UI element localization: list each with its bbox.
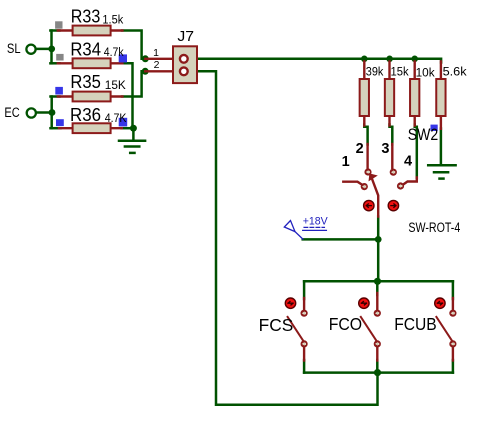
wire J7 pin2 long route to switches bottom (198, 71, 378, 404)
resistor 39k (360, 62, 369, 126)
node top rail junction (374, 278, 381, 285)
resistor 10k (410, 62, 419, 126)
resistor R34 (58, 58, 123, 68)
marker blue square R36 left (56, 119, 64, 126)
terminal EC (27, 108, 36, 117)
wire FCUB bottom riser (452, 360, 455, 373)
resistor 5.6k (436, 62, 445, 129)
marker gray square R33 (55, 21, 62, 28)
wire FCS top drop (303, 281, 306, 299)
wire J7 pin1 main horizontal net (198, 59, 441, 63)
power flag +18V (284, 221, 326, 240)
rotary switch SW2 contact 1 (361, 183, 368, 190)
rotary switch SW2 increment button (388, 200, 398, 210)
rotary switch SW2 pin 3 lead (391, 144, 393, 168)
svg-text:1: 1 (153, 47, 159, 59)
node +18V junction (375, 236, 382, 243)
svg-text:4.7K: 4.7K (105, 111, 127, 125)
svg-text:15K: 15K (105, 78, 127, 92)
marker gray square R34 (56, 54, 63, 61)
wire FCO top drop (376, 281, 379, 295)
switch FCS toggle button (285, 298, 295, 308)
connector J7 (145, 46, 197, 83)
svg-text:FCUB: FCUB (394, 314, 437, 334)
terminal SL (26, 45, 35, 54)
marker blue square R35 left (55, 87, 63, 95)
node J7 pin2 junction (142, 68, 149, 75)
wire +18V feed (303, 238, 379, 241)
wire node to R34 left (50, 62, 59, 65)
wire R34 right down to R36 node (122, 63, 133, 128)
svg-text:SW2: SW2 (408, 125, 439, 144)
svg-text:1: 1 (342, 154, 350, 170)
svg-text:EC: EC (4, 105, 20, 120)
wire node to R35 left (51, 95, 60, 98)
wire SL terminal to node (36, 48, 52, 51)
node 15k top junction (386, 56, 393, 63)
svg-text:SL: SL (7, 41, 21, 56)
ground symbol left (119, 141, 145, 153)
rotary switch SW2 contact 2 (364, 168, 371, 175)
node EC junction (49, 109, 56, 116)
wire 39k bottom jog (364, 125, 367, 145)
svg-text:+18V: +18V (303, 216, 328, 228)
wire ground stem left (132, 128, 135, 141)
svg-text:R36: R36 (70, 104, 101, 125)
svg-text:3: 3 (381, 141, 389, 157)
wire R35 right up to J7 pin 2 node (122, 71, 142, 96)
wire R33 right to J7 pin 1 node (122, 31, 142, 59)
svg-text:FCO: FCO (329, 314, 362, 334)
wire EC terminal to node (36, 111, 52, 114)
node 39k top junction (361, 56, 368, 63)
svg-text:10k: 10k (416, 66, 436, 80)
wire FCUB top drop (452, 281, 455, 299)
svg-text:1.5k: 1.5k (102, 12, 124, 26)
rotary switch SW2 pin 1 lead (343, 182, 361, 185)
wire node to R36 left (51, 127, 61, 130)
marker blue square SW2 (431, 125, 438, 131)
resistor R33 (58, 26, 123, 36)
ground symbol right (428, 165, 455, 178)
rotary switch SW2 contact 3 (390, 169, 397, 176)
rotary switch SW2 contact 4 (397, 182, 404, 189)
switch FCUB (436, 298, 456, 361)
switch FCUB toggle button (435, 298, 445, 308)
rotary switch SW2 rotor arrowhead (369, 173, 378, 181)
svg-text:R34: R34 (70, 38, 101, 59)
wire 5.6k bottom to ground (440, 129, 443, 166)
wire R36 right to ground node (122, 127, 134, 130)
node bottom rail junction (374, 369, 381, 376)
marker blue square R36 right (119, 118, 128, 127)
svg-text:4.7k: 4.7k (104, 45, 124, 59)
wire FCS bottom riser (303, 360, 306, 373)
svg-text:2: 2 (356, 141, 364, 157)
wire rotor pole vertical (377, 217, 380, 282)
svg-text:FCS: FCS (259, 315, 294, 335)
marker blue square R34 right (119, 54, 127, 62)
svg-text:R33: R33 (71, 6, 101, 27)
wire node to R33 left (50, 29, 59, 32)
svg-text:SW-ROT-4: SW-ROT-4 (408, 220, 460, 235)
svg-text:39k: 39k (366, 64, 384, 78)
rotary switch SW2 rotor arm (372, 178, 379, 217)
wire SL vertical bus (50, 31, 53, 64)
svg-text:2: 2 (154, 59, 160, 71)
switch FCO (361, 293, 381, 361)
resistor R35 (58, 92, 123, 102)
node SL junction (48, 46, 55, 53)
svg-text:J7: J7 (177, 29, 194, 45)
resistor 15k (385, 62, 394, 126)
svg-text:5.6k: 5.6k (443, 65, 468, 79)
wire FCO bottom riser (376, 360, 379, 373)
wire switches top rail (304, 280, 453, 283)
wire EC vertical bus (50, 97, 53, 129)
rotary switch SW2 pin 4 lead (403, 178, 417, 185)
rotary switch SW2 decrement button (364, 200, 374, 210)
resistor R36 (59, 123, 122, 133)
switch FCS (288, 298, 308, 361)
node J7 pin1 junction (142, 55, 149, 62)
svg-text:R35: R35 (70, 71, 101, 92)
wire 15k bottom jog (390, 125, 393, 145)
svg-text:15k: 15k (391, 64, 410, 78)
rotary switch SW2 pin 2 lead (366, 144, 368, 168)
switch FCO toggle button (359, 298, 369, 308)
node 10k top junction (411, 56, 418, 63)
wire switches bottom rail (304, 371, 453, 374)
node R36 ground junction (130, 125, 137, 132)
wire 10k bottom to position 4 (415, 125, 417, 179)
svg-text:4: 4 (404, 153, 412, 169)
